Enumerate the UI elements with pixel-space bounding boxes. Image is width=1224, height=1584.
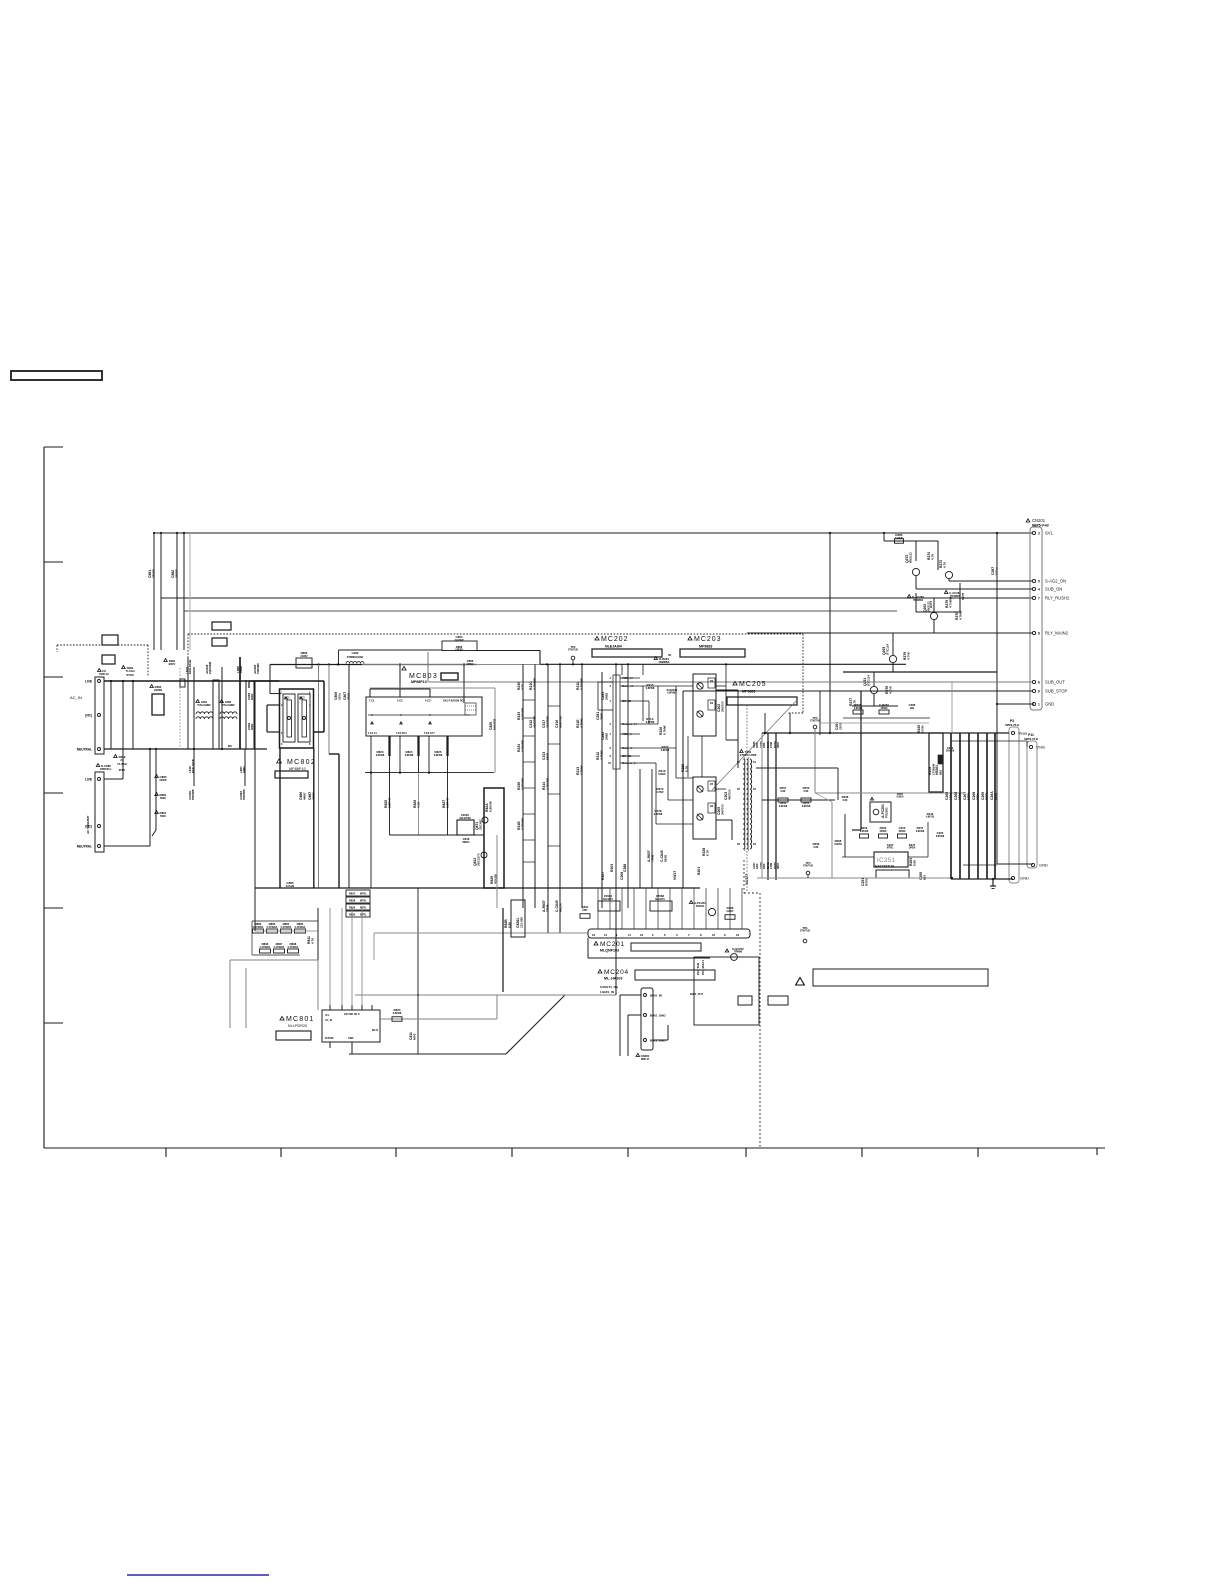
svg-text:STAR: STAR	[126, 673, 133, 677]
svg-text:MP9883: MP9883	[742, 690, 755, 694]
svg-text:MA4270: MA4270	[655, 898, 665, 901]
svg-text:NLEJAI04: NLEJAI04	[605, 645, 622, 649]
svg-text:100u: 100u	[975, 793, 979, 800]
svg-text:SB07: SB07	[777, 741, 780, 748]
svg-text:TMP2M8: TMP2M8	[256, 663, 260, 674]
svg-text:0.47W/8A: 0.47W/8A	[253, 926, 264, 929]
svg-text:2QRS2M8: 2QRS2M8	[208, 661, 212, 674]
svg-text:6.7MW: 6.7MW	[662, 725, 666, 735]
svg-text:6.8K: 6.8K	[507, 921, 511, 928]
svg-text:100u: 100u	[957, 793, 961, 800]
svg-text:MC201: MC201	[600, 941, 625, 948]
svg-text:PS2561: PS2561	[884, 807, 888, 818]
svg-text:C252: C252	[887, 843, 894, 847]
svg-text:4.7K: 4.7K	[416, 801, 420, 808]
svg-text:LIVE: LIVE	[85, 777, 92, 781]
svg-text:8: 8	[1038, 631, 1040, 635]
svg-text:2N82: 2N82	[599, 712, 603, 720]
svg-text:A-C1: A-C1	[284, 697, 290, 700]
svg-text:6: 6	[1038, 680, 1040, 684]
svg-text:OPEN: OPEN	[881, 707, 888, 710]
svg-text:0.47W/8A: 0.47W/8A	[295, 926, 306, 929]
svg-text:R249: R249	[927, 812, 934, 816]
svg-text:3300P: 3300P	[174, 569, 178, 578]
svg-text:MMA4: MMA4	[462, 841, 470, 844]
svg-text:DTC114: DTC114	[866, 675, 870, 686]
svg-text:100u: 100u	[948, 793, 952, 800]
svg-text:MTRL: MTRL	[864, 878, 868, 886]
svg-text:12: 12	[592, 933, 596, 937]
svg-text:RLY_MAIN2: RLY_MAIN2	[1045, 631, 1069, 636]
svg-text:683: 683	[938, 770, 942, 775]
svg-text:4.7KMW: 4.7KMW	[579, 678, 583, 690]
svg-text:JW2SN: JW2SN	[154, 689, 163, 692]
svg-text:4.7KMW: 4.7KMW	[532, 678, 536, 690]
svg-text:TMP2MB: TMP2MB	[243, 789, 246, 800]
svg-text:4N7000: 4N7000	[727, 789, 731, 800]
svg-text:BIAS_IN: BIAS_IN	[650, 994, 662, 998]
svg-text:6.8K/8: 6.8K/8	[897, 797, 904, 799]
svg-text:TR4MW: TR4MW	[734, 951, 743, 954]
svg-text:UN2112: UN2112	[908, 552, 912, 563]
svg-text:3V/20W: 3V/20W	[455, 639, 465, 642]
svg-text:C288: C288	[623, 864, 627, 872]
svg-text:SVL: SVL	[1045, 531, 1054, 536]
svg-text:MC205: MC205	[739, 681, 767, 688]
svg-text:5: 5	[1038, 579, 1040, 583]
svg-text:2N82: 2N82	[604, 732, 608, 740]
svg-text:7: 7	[1038, 596, 1040, 600]
svg-text:UN2112: UN2112	[926, 601, 930, 612]
svg-text:4.70K: 4.70K	[888, 685, 892, 694]
svg-text:1 BIAS_IN: 1 BIAS_IN	[600, 990, 614, 994]
svg-text:5K: 5K	[668, 653, 671, 657]
svg-text:6.8K/98: 6.8K/98	[936, 835, 945, 838]
svg-text:MTRL: MTRL	[360, 914, 367, 917]
svg-text:HA17431UA: HA17431UA	[875, 865, 895, 869]
svg-text:6.8K/98: 6.8K/98	[916, 830, 925, 833]
svg-text:4: 4	[1038, 587, 1040, 591]
svg-text:6.8P/98: 6.8P/98	[376, 754, 385, 757]
svg-text:APE8B: APE8B	[455, 649, 463, 652]
svg-text:NEUTRAL: NEUTRAL	[77, 747, 92, 751]
svg-text:6.8K/98: 6.8K/98	[854, 707, 863, 710]
svg-text:BIAS_OUT: BIAS_OUT	[690, 992, 704, 996]
svg-text:250V: 250V	[119, 768, 126, 772]
svg-text:2N7000: 2N7000	[720, 804, 724, 815]
svg-text:MP88P13: MP88P13	[411, 680, 427, 684]
svg-text:STK/TUB: STK/TUB	[800, 931, 810, 933]
svg-text:S-AG2_ON: S-AG2_ON	[1045, 579, 1066, 584]
svg-text:OPEN: OPEN	[909, 848, 916, 850]
svg-text:BIAS_GND: BIAS_GND	[650, 1014, 666, 1018]
svg-text:4.7K/F: 4.7K/F	[656, 791, 664, 794]
svg-text:AC SUBUNIT: AC SUBUNIT	[86, 815, 90, 834]
svg-text:683U: 683U	[663, 855, 667, 862]
svg-text:4.7T: 4.7T	[520, 684, 524, 690]
svg-text:100u: 100u	[993, 793, 997, 800]
svg-text:ML_HA103: ML_HA103	[604, 977, 622, 981]
svg-text:6.8P/98: 6.8P/98	[434, 754, 443, 757]
svg-text:330u: 330u	[337, 693, 341, 700]
svg-text:MTRL: MTRL	[887, 848, 894, 850]
svg-text:A4M4: A4M4	[239, 666, 243, 673]
svg-text:6.8K/F: 6.8K/F	[658, 773, 666, 776]
svg-text:3: 3	[1038, 531, 1040, 535]
svg-text:2SC1573: 2SC1573	[476, 853, 480, 866]
svg-text:6.8P/98: 6.8P/98	[405, 754, 414, 757]
svg-text:0.47W/8A: 0.47W/8A	[288, 946, 299, 949]
svg-text:MA4270M: MA4270M	[459, 817, 470, 820]
svg-text:0.47W/8A: 0.47W/8A	[267, 926, 278, 929]
svg-text:4.7KMW: 4.7KMW	[520, 818, 524, 830]
svg-text:6.8P/98: 6.8P/98	[654, 813, 663, 816]
svg-text:6.8P/98: 6.8P/98	[661, 749, 670, 752]
svg-text:A4M4: A4M4	[243, 766, 246, 773]
svg-text:ERALD4GB: ERALD4GB	[192, 759, 195, 773]
svg-text:P3: P3	[1010, 719, 1014, 723]
svg-text:4.7MW: 4.7MW	[579, 765, 583, 775]
svg-text:6.8P/47: 6.8P/47	[387, 797, 391, 808]
svg-text:SMP3-V5-B: SMP3-V5-B	[1024, 737, 1038, 741]
svg-text:560K: 560K	[160, 797, 166, 800]
svg-text:NEUTRAL: NEUTRAL	[77, 844, 92, 848]
svg-text:PYEAAMR2: PYEAAMR2	[221, 704, 235, 707]
svg-text:ETR28U-2568: ETR28U-2568	[740, 753, 757, 757]
svg-text:R828: R828	[349, 899, 356, 903]
svg-text:11: 11	[628, 933, 631, 937]
svg-text:2N7000: 2N7000	[720, 701, 724, 712]
svg-text:R201: R201	[697, 867, 701, 875]
svg-text:C208: C208	[620, 872, 624, 880]
svg-text:6.8K/16: 6.8K/16	[926, 817, 935, 819]
svg-text:IC251: IC251	[877, 858, 896, 864]
svg-text:D886: D886	[456, 645, 463, 649]
svg-text:L982: L982	[352, 651, 359, 655]
svg-text:TP3: TP3	[813, 716, 818, 720]
svg-text:OPEN: OPEN	[880, 830, 887, 833]
svg-text:MC B: MC B	[372, 1029, 378, 1032]
svg-text:MMAEB: MMAEB	[492, 718, 496, 730]
svg-text:OPEN: OPEN	[467, 663, 474, 666]
svg-text:GND: GND	[1039, 863, 1048, 868]
svg-text:0.01u: 0.01u	[994, 567, 998, 575]
svg-text:STK/TUB: STK/TUB	[810, 721, 820, 723]
svg-text:0.47W/8A: 0.47W/8A	[274, 946, 285, 949]
svg-text:PYEAAMR2: PYEAAMR2	[197, 704, 211, 707]
svg-text:6.8K/98: 6.8K/98	[488, 801, 492, 812]
svg-text:PBD-10: PBD-10	[99, 672, 109, 676]
svg-text:DTC114: DTC114	[885, 644, 889, 655]
svg-text:MC202: MC202	[601, 636, 629, 643]
svg-text:TR48: TR48	[650, 854, 654, 862]
svg-text:5 C2: 5 C2	[397, 699, 403, 703]
svg-text:0.47W/8A: 0.47W/8A	[281, 926, 292, 929]
svg-text:2200: 2200	[838, 723, 842, 730]
svg-text:BU/OFF: BU/OFF	[325, 1037, 334, 1040]
svg-text:MTRL: MTRL	[360, 900, 367, 903]
svg-text:560K: 560K	[160, 815, 166, 818]
svg-text:14: 14	[604, 933, 608, 937]
svg-text:GND: GND	[1045, 702, 1054, 707]
svg-text:STK/TUB: STK/TUB	[568, 650, 578, 652]
svg-text:R827: R827	[349, 892, 356, 896]
svg-text:680P: 680P	[545, 753, 549, 760]
svg-text:MTRL: MTRL	[984, 792, 988, 800]
svg-text:BRKE05-L: BRKE05-L	[100, 768, 112, 771]
svg-text:SB07: SB07	[777, 862, 780, 869]
svg-text:6.8P/47: 6.8P/47	[445, 797, 449, 808]
svg-text:P11: P11	[1028, 733, 1034, 737]
svg-text:Vbbb: Vbbb	[1036, 745, 1046, 750]
svg-text:6.8P/98: 6.8P/98	[646, 721, 655, 724]
svg-text:GN VW1 FB S: GN VW1 FB S	[344, 1013, 360, 1016]
svg-text:MA4270: MA4270	[603, 898, 613, 901]
svg-text:4.7K: 4.7K	[310, 937, 314, 944]
svg-text:4.7KMW: 4.7KMW	[545, 778, 549, 790]
svg-text:MPS: MPS	[412, 1033, 416, 1040]
svg-text:6.8P/98: 6.8P/98	[393, 1012, 402, 1015]
svg-text:R247: R247	[909, 843, 916, 847]
svg-text:6.8K/98: 6.8K/98	[860, 830, 869, 833]
svg-text:2M02: 2M02	[250, 723, 254, 730]
svg-text:9: 9	[1038, 689, 1040, 693]
svg-text:6.8K: 6.8K	[780, 790, 785, 793]
svg-text:4.7K: 4.7K	[942, 561, 946, 568]
svg-text:6.8K: 6.8K	[912, 859, 916, 866]
svg-text:13: 13	[736, 933, 740, 937]
svg-text:PFC_SUB: PFC_SUB	[696, 963, 700, 975]
svg-text:B6: B6	[228, 744, 232, 748]
svg-text:5 MULT1_ON: 5 MULT1_ON	[600, 985, 618, 989]
svg-text:BNP-VI: BNP-VI	[641, 1058, 649, 1061]
svg-text:MTRL: MTRL	[966, 792, 970, 800]
svg-text:1: 1	[1038, 702, 1040, 706]
svg-text:MC802: MC802	[287, 759, 316, 766]
svg-text:3300P: 3300P	[151, 569, 155, 578]
svg-text:NLLPDR20: NLLPDR20	[288, 1024, 307, 1028]
svg-text:SUB_STOP: SUB_STOP	[1045, 689, 1067, 694]
svg-text:A-C2: A-C2	[299, 697, 305, 700]
svg-text:2N82: 2N82	[604, 692, 608, 700]
svg-text:2200P: 2200P	[159, 779, 167, 782]
svg-text:4M87: 4M87	[311, 792, 315, 800]
svg-text:1M02: 1M02	[250, 693, 254, 700]
svg-text:TPA: TPA	[802, 926, 807, 930]
svg-text:OPEN: OPEN	[899, 830, 906, 833]
svg-text:ERZV: ERZV	[169, 663, 176, 666]
svg-text:MTRL: MTRL	[360, 907, 367, 910]
svg-text:6.8K: 6.8K	[803, 790, 808, 793]
svg-text:VLL: VLL	[325, 1014, 330, 1017]
svg-text:OK1 P BAS1M DC6: OK1 P BAS1M DC6	[443, 700, 465, 703]
svg-text:247u/B: 247u/B	[286, 884, 295, 888]
svg-text:GND: GND	[348, 1037, 354, 1040]
svg-text:6.8K/98: 6.8K/98	[779, 805, 788, 808]
svg-text:4.7MW: 4.7MW	[579, 718, 583, 728]
svg-text:MC204: MC204	[604, 969, 629, 976]
svg-text:MC203: MC203	[694, 636, 722, 643]
svg-text:AMPT68: AMPT68	[558, 716, 562, 728]
svg-text:MTRL: MTRL	[360, 893, 367, 896]
svg-text:Vaaa: Vaaa	[1018, 731, 1028, 736]
svg-text:5 K3 C3 7: 5 K3 C3 7	[424, 732, 435, 735]
svg-text:TR48: TR48	[545, 904, 549, 912]
svg-text:TR4MW5: TR4MW5	[913, 599, 924, 602]
svg-text:SMP3-V5-B: SMP3-V5-B	[1005, 723, 1019, 727]
svg-text:6.7K: 6.7K	[705, 849, 709, 856]
svg-text:RLY_RUSH2: RLY_RUSH2	[1045, 596, 1070, 601]
svg-text:VW17: VW17	[673, 871, 677, 880]
svg-text:MC801: MC801	[286, 1016, 315, 1023]
svg-text:MC803: MC803	[409, 673, 438, 680]
svg-text:4.7MW: 4.7MW	[958, 610, 962, 620]
svg-text:0.47W/8A: 0.47W/8A	[260, 946, 271, 949]
svg-text:R267: R267	[897, 792, 904, 796]
svg-text:7 C1: 7 C1	[369, 699, 375, 703]
svg-text:ETRMKG02AD: ETRMKG02AD	[347, 656, 364, 659]
svg-text:AMPT68: AMPT68	[545, 716, 549, 728]
svg-text:CN201: CN201	[1032, 518, 1046, 523]
svg-text:122-266: 122-266	[519, 917, 523, 928]
svg-text:PFC_MULT1: PFC_MULT1	[701, 959, 705, 975]
svg-text:NBP5-V-H3: NBP5-V-H3	[1032, 524, 1049, 528]
svg-text:170M: 170M	[920, 725, 924, 733]
svg-text:R275: R275	[961, 592, 965, 600]
svg-text:4 C3: 4 C3	[425, 699, 431, 703]
svg-text:10: 10	[712, 933, 716, 937]
svg-text:6.8K/F: 6.8K/F	[726, 910, 734, 913]
svg-text:SUB_ON: SUB_ON	[1045, 587, 1062, 592]
svg-text:GND: GND	[1020, 876, 1029, 881]
svg-text:6.8P/98: 6.8P/98	[646, 687, 655, 690]
svg-text:MP9883: MP9883	[699, 645, 712, 649]
svg-text:1 K1 C1: 1 K1 C1	[368, 732, 377, 735]
svg-text:D-QC202: D-QC202	[732, 947, 744, 951]
svg-text:683: 683	[922, 875, 926, 880]
svg-text:TMP2MB: TMP2MB	[192, 789, 195, 800]
svg-text:4.70K: 4.70K	[906, 651, 910, 660]
svg-text:6.8K/98: 6.8K/98	[802, 805, 811, 808]
svg-text:CMY: CMY	[582, 909, 588, 912]
svg-text:2A05Z: 2A05Z	[300, 655, 308, 658]
svg-text:R203: R203	[610, 864, 614, 872]
svg-text:4M87: 4M87	[302, 792, 306, 800]
svg-text:T1.6AH: T1.6AH	[117, 762, 127, 766]
svg-text:4.7MW: 4.7MW	[599, 750, 603, 760]
svg-text:PS2561: PS2561	[696, 905, 705, 908]
svg-text:AC_IN: AC_IN	[70, 695, 82, 700]
svg-text:400V: 400V	[346, 693, 350, 700]
svg-text:4.7K: 4.7K	[930, 553, 934, 560]
svg-text:5 K2 D2 6: 5 K2 D2 6	[396, 732, 407, 735]
svg-text:TP2: TP2	[571, 645, 576, 649]
svg-text:(NC): (NC)	[85, 713, 92, 717]
svg-text:LIVE: LIVE	[85, 679, 92, 683]
svg-text:4.7KMW: 4.7KMW	[520, 740, 524, 752]
svg-text:SUB_OUT: SUB_OUT	[1045, 680, 1065, 685]
svg-text:2SC457: 2SC457	[478, 819, 482, 830]
svg-text:6.8K: 6.8K	[813, 846, 818, 849]
svg-text:R207: R207	[601, 872, 605, 880]
svg-text:AC_IN: AC_IN	[325, 1019, 332, 1022]
svg-text:6.8K/F: 6.8K/F	[895, 536, 903, 540]
svg-text:RGLA: RGLA	[558, 903, 562, 912]
svg-text:4.70MW: 4.70MW	[948, 597, 952, 608]
svg-text:STK/TUB: STK/TUB	[803, 866, 813, 868]
svg-text:2N988BA: 2N988BA	[659, 661, 670, 664]
svg-text:MLQNP103: MLQNP103	[600, 949, 619, 953]
svg-text:6.8/2W: 6.8/2W	[834, 843, 842, 846]
svg-text:683: 683	[910, 707, 915, 710]
svg-text:ERALD4GB: ERALD4GB	[188, 660, 192, 674]
svg-text:6.8K: 6.8K	[842, 799, 847, 802]
svg-text:13: 13	[640, 933, 644, 937]
svg-text:TP4: TP4	[806, 861, 811, 865]
